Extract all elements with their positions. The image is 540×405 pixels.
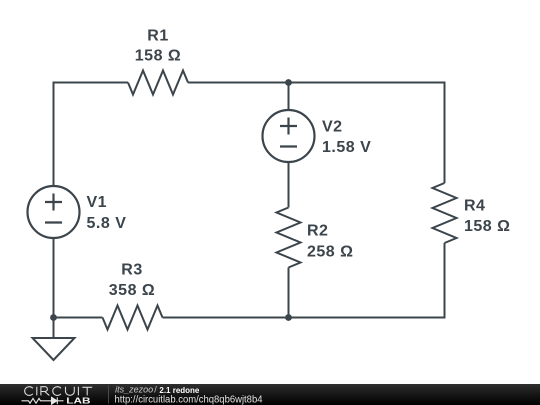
wire left vertical upper segment xyxy=(53,84,55,187)
wire middle vertical upper segment xyxy=(288,83,290,111)
CircuitLab logo LAB text xyxy=(66,396,90,405)
resistor R3 xyxy=(103,306,163,330)
svg-text:http://circuitlab.com/chq8qb6w: http://circuitlab.com/chq8qb6wjt8b4 xyxy=(115,395,263,405)
wire right vertical lower segment xyxy=(444,243,446,319)
wire middle vertical lower segment xyxy=(288,268,290,318)
footer url line xyxy=(115,395,263,405)
node junction bottom middle xyxy=(285,314,292,321)
svg-text:258 Ω: 258 Ω xyxy=(307,244,353,261)
footer separator line xyxy=(108,386,110,404)
wire bottom horizontal left segment xyxy=(54,317,103,319)
voltage source V2 xyxy=(263,110,315,162)
CircuitLab logo mini schematic xyxy=(22,397,64,404)
wire top horizontal left segment xyxy=(53,82,129,84)
svg-text:R2: R2 xyxy=(307,223,328,240)
ground wire stub xyxy=(53,318,55,339)
footer title slash xyxy=(154,384,157,394)
svg-text:R4: R4 xyxy=(464,198,485,215)
wire top horizontal right segment xyxy=(188,82,446,84)
svg-text:158 Ω: 158 Ω xyxy=(464,218,510,235)
svg-text:358 Ω: 358 Ω xyxy=(109,282,155,299)
svg-text:5.8 V: 5.8 V xyxy=(87,215,127,232)
svg-text:R3: R3 xyxy=(121,262,142,279)
svg-text:LAB: LAB xyxy=(66,396,90,405)
node junction top middle xyxy=(285,79,292,86)
svg-text:V2: V2 xyxy=(322,119,343,136)
svg-text:its_zezoo: its_zezoo xyxy=(115,384,153,394)
svg-text:158 Ω: 158 Ω xyxy=(135,48,181,65)
node junction bottom left xyxy=(50,314,57,321)
wire left vertical lower segment xyxy=(53,238,55,318)
resistor R4 xyxy=(433,183,457,243)
footer title user name xyxy=(115,384,153,394)
CircuitLab logo CIRCUIT outlined letters xyxy=(25,387,93,396)
voltage source V1 xyxy=(28,186,80,238)
svg-text:R1: R1 xyxy=(147,28,168,45)
svg-text:1.58 V: 1.58 V xyxy=(322,139,371,156)
wire middle vertical between V2 and R2 xyxy=(288,162,290,208)
svg-text:V1: V1 xyxy=(87,194,108,211)
wire bottom horizontal right segment xyxy=(163,317,446,319)
footer bar xyxy=(0,384,540,405)
ground symbol xyxy=(33,338,75,360)
resistor R1 xyxy=(128,71,188,95)
wire right vertical upper segment xyxy=(444,83,446,184)
resistor R2 xyxy=(277,208,301,268)
svg-text:2.1 redone: 2.1 redone xyxy=(159,385,199,395)
footer title circuit name xyxy=(159,385,199,395)
